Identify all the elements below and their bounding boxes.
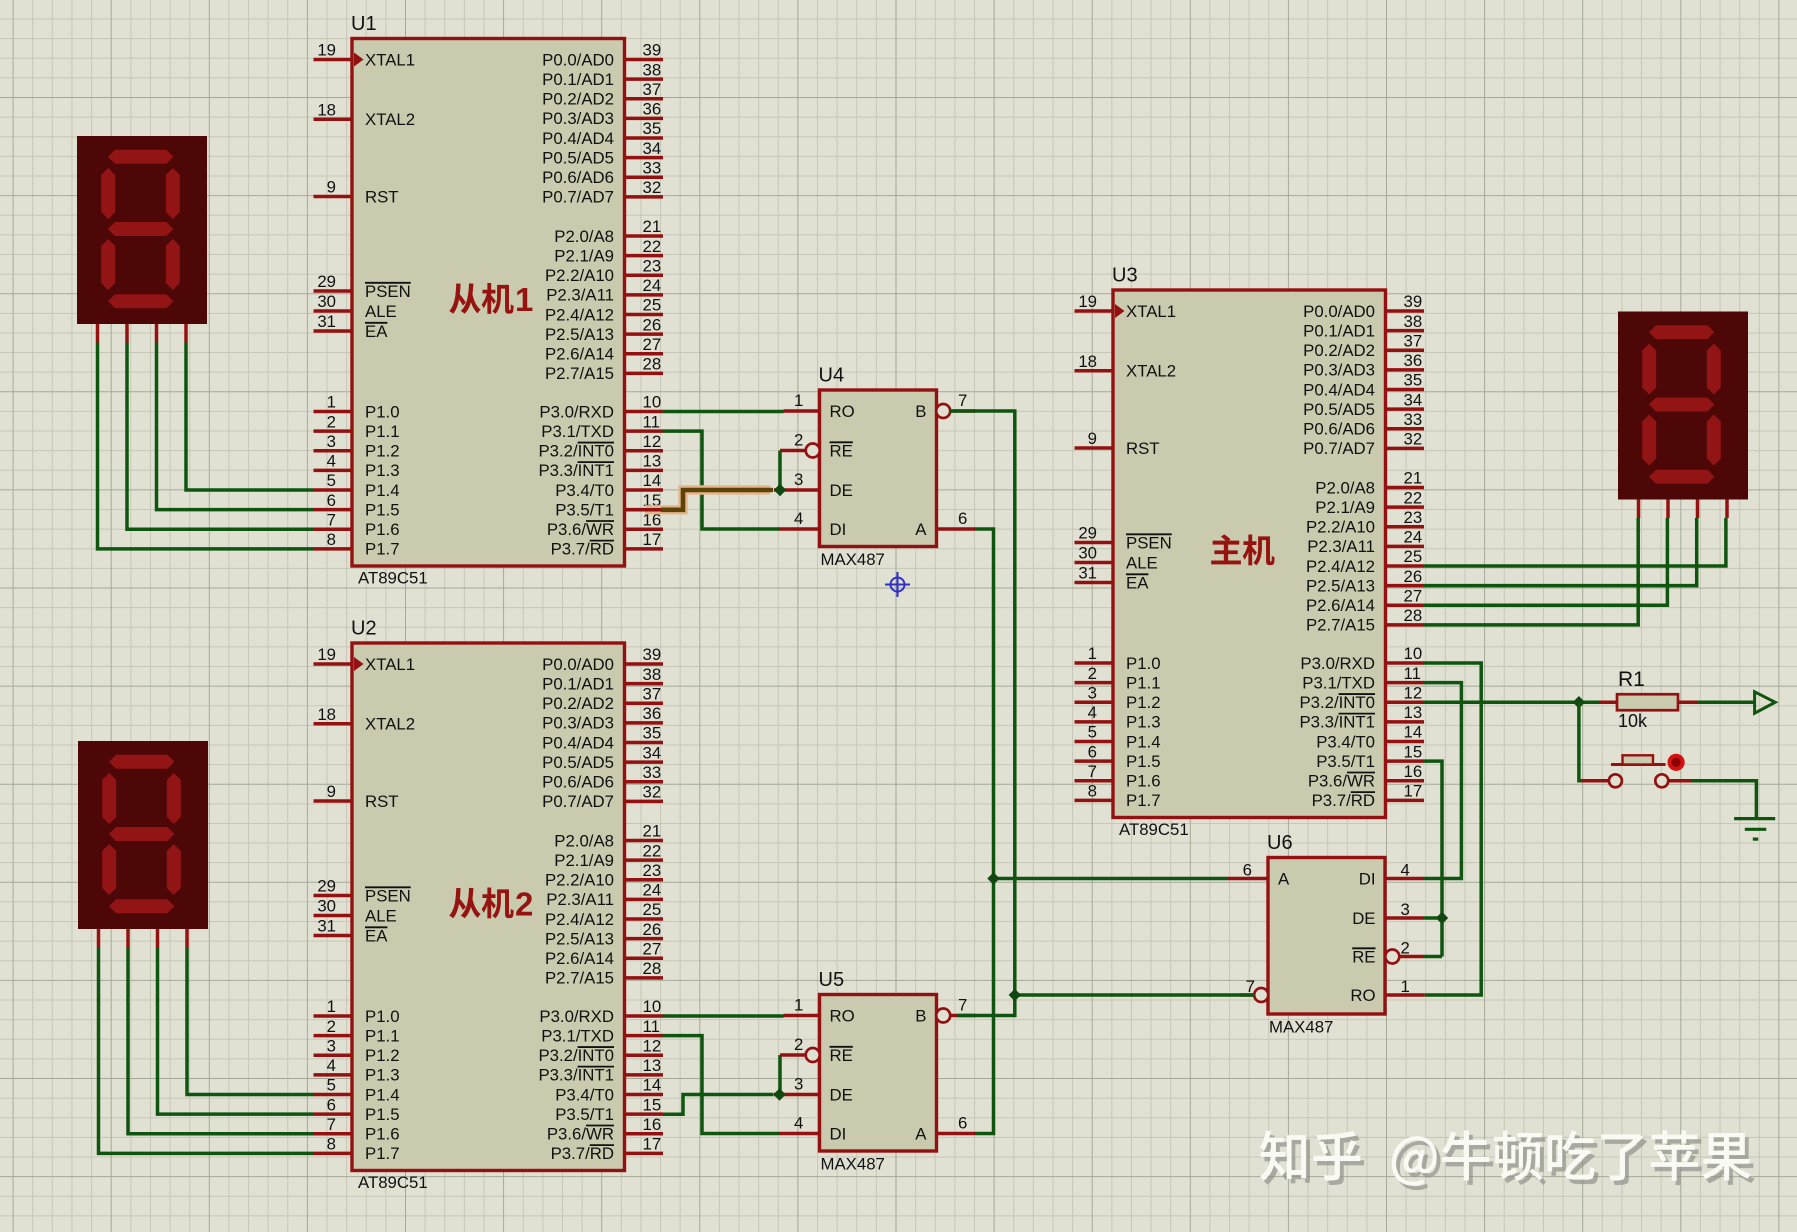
DS3 pin 2 (1666, 500, 1670, 519)
svg-text:13: 13 (643, 452, 662, 471)
svg-text:P0.1/AD1: P0.1/AD1 (542, 70, 614, 89)
svg-text:R1: R1 (1618, 668, 1645, 691)
svg-text:24: 24 (643, 881, 662, 900)
svg-text:P2.5/A13: P2.5/A13 (1306, 576, 1375, 595)
U3 pin 19 XTAL1 (1075, 309, 1114, 313)
svg-text:EA: EA (1126, 573, 1149, 592)
svg-text:17: 17 (643, 530, 662, 549)
svg-text:17: 17 (1404, 782, 1423, 801)
svg-text:16: 16 (643, 1115, 662, 1134)
U3 pin 23 P2.2/A10 (1386, 525, 1425, 529)
svg-text:29: 29 (317, 877, 336, 896)
svg-text:4: 4 (327, 452, 336, 471)
svg-text:27: 27 (1404, 586, 1423, 605)
svg-text:P1.6: P1.6 (365, 520, 400, 539)
svg-text:6: 6 (327, 491, 336, 510)
U2 pin 7 P1.6 (314, 1132, 353, 1136)
7-segment display DS3 (1618, 312, 1748, 500)
svg-text:P2.1/A9: P2.1/A9 (1315, 498, 1375, 517)
svg-text:18: 18 (317, 101, 336, 120)
svg-text:P2.4/A12: P2.4/A12 (545, 910, 614, 929)
U5 pin 6 A (937, 1132, 976, 1136)
U1 pin 32 P0.7/AD7 (625, 195, 664, 199)
wire U2 P3.5/T1 to U5 DE (663, 1095, 774, 1115)
button interactive toggle dot (1668, 754, 1685, 771)
svg-text:10k: 10k (1618, 711, 1648, 731)
svg-text:PSEN: PSEN (1126, 533, 1172, 552)
svg-text:P2.2/A10: P2.2/A10 (545, 266, 614, 285)
svg-text:3: 3 (1401, 900, 1410, 919)
U3 pin 25 P2.4/A12 (1386, 564, 1425, 568)
svg-text:P1.1: P1.1 (1126, 673, 1161, 692)
svg-text:P3.5/T1: P3.5/T1 (555, 500, 614, 519)
U1 pin 3 P1.2 (314, 449, 353, 453)
wire U3 P2.7 to DS3 pin1 (1424, 518, 1639, 625)
U3 pin 17 P3.7/RD (1386, 799, 1425, 803)
svg-text:35: 35 (643, 724, 662, 743)
svg-text:AT89C51: AT89C51 (358, 1173, 428, 1192)
U2 pin 8 P1.7 (314, 1152, 353, 1156)
svg-text:P0.2/AD2: P0.2/AD2 (542, 694, 614, 713)
svg-text:XTAL1: XTAL1 (365, 50, 415, 69)
svg-text:P1.3: P1.3 (365, 1066, 400, 1085)
svg-text:39: 39 (643, 41, 662, 60)
svg-text:P1.7: P1.7 (365, 1144, 400, 1163)
svg-text:P1.5: P1.5 (365, 1105, 400, 1124)
svg-text:13: 13 (643, 1056, 662, 1075)
svg-text:21: 21 (643, 822, 662, 841)
U3 pin 27 P2.6/A14 (1386, 603, 1425, 607)
U2 pin 34 P0.5/AD5 (625, 760, 664, 764)
U1 pin 34 P0.5/AD5 (625, 156, 664, 160)
svg-text:DE: DE (830, 1085, 853, 1104)
U1 pin 33 P0.6/AD6 (625, 175, 664, 179)
svg-text:1: 1 (1088, 644, 1097, 663)
svg-text:30: 30 (317, 292, 336, 311)
svg-text:8: 8 (327, 530, 336, 549)
wire DS2 pin1 to U2 P1.7 (99, 948, 314, 1154)
junction U4 DE node (774, 484, 786, 496)
svg-text:P3.3/INT1: P3.3/INT1 (538, 1066, 614, 1085)
transceiver U6 MAX487 (1267, 832, 1385, 1037)
U3 pin 29 PSEN (1075, 541, 1114, 545)
U5 pin 4 DI (779, 1132, 820, 1136)
U2 pin 21 P2.0/A8 (625, 839, 664, 843)
wire U3 P3.2/INT0 to R1 and button (1424, 700, 1601, 704)
svg-text:P2.4/A12: P2.4/A12 (545, 305, 614, 324)
U2 pin 37 P0.2/AD2 (625, 701, 664, 705)
wire net A branch to U6 A (994, 877, 1228, 881)
U3 pin 5 P1.4 (1075, 740, 1114, 744)
svg-text:P2.5/A13: P2.5/A13 (545, 929, 614, 948)
wire DS1 pin4 to U1 P1.4 (186, 343, 314, 490)
svg-text:35: 35 (1404, 371, 1423, 390)
svg-text:25: 25 (643, 296, 662, 315)
svg-text:14: 14 (643, 1076, 662, 1095)
U3 pin 22 P2.1/A9 (1386, 505, 1425, 509)
svg-text:31: 31 (1078, 564, 1097, 583)
svg-text:DE: DE (1352, 909, 1375, 928)
U3 pin 10 P3.0/RXD (1386, 661, 1425, 665)
svg-text:6: 6 (958, 509, 967, 528)
svg-text:A: A (915, 520, 927, 539)
svg-text:10: 10 (643, 393, 662, 412)
svg-text:MAX487: MAX487 (821, 550, 885, 569)
svg-text:11: 11 (1404, 664, 1421, 683)
svg-text:5: 5 (327, 471, 336, 490)
svg-text:P2.7/A15: P2.7/A15 (1306, 616, 1375, 635)
svg-text:B: B (915, 402, 926, 421)
U6 pin 6 A (1228, 877, 1269, 881)
U2 pin 6 P1.5 (314, 1112, 353, 1116)
svg-text:ALE: ALE (365, 302, 397, 321)
U2 pin 24 P2.3/A11 (625, 898, 664, 902)
svg-text:P1.2: P1.2 (1126, 693, 1161, 712)
svg-text:P2.5/A13: P2.5/A13 (545, 325, 614, 344)
U1 pin 16 P3.6/WR (625, 527, 664, 531)
svg-text:RE: RE (830, 441, 853, 460)
svg-text:36: 36 (643, 704, 662, 723)
svg-text:P0.7/AD7: P0.7/AD7 (1303, 439, 1375, 458)
svg-text:4: 4 (1401, 861, 1410, 880)
U1 pin 6 P1.5 (314, 508, 353, 512)
U3 pin 12 P3.2/INT0 (1386, 700, 1425, 704)
U1 pin 2 P1.1 (314, 429, 353, 433)
U1 pin 11 P3.1/TXD (625, 429, 664, 433)
svg-text:26: 26 (1404, 567, 1423, 586)
U2 pin 11 P3.1/TXD (625, 1034, 664, 1038)
svg-text:P1.1: P1.1 (365, 1026, 400, 1045)
svg-text:38: 38 (1404, 312, 1423, 331)
U1 pin 13 P3.3/INT1 (625, 469, 664, 473)
U2 pin 10 P3.0/RXD (625, 1014, 664, 1018)
svg-text:9: 9 (327, 178, 336, 197)
U1 pin 29 PSEN (314, 289, 353, 293)
svg-text:P3.0/RXD: P3.0/RXD (539, 1007, 614, 1026)
U1 pin 36 P0.3/AD3 (625, 117, 664, 121)
U6 pin 4 DI (1386, 877, 1424, 881)
svg-text:1: 1 (1401, 977, 1410, 996)
transceiver U4 MAX487 (819, 365, 937, 570)
svg-text:15: 15 (643, 1095, 662, 1114)
U3 pin 9 RST (1075, 446, 1114, 450)
svg-text:28: 28 (643, 959, 662, 978)
U3 pin 16 P3.6/WR (1386, 779, 1425, 783)
origin marker (blue crosshair) (885, 572, 910, 597)
svg-text:15: 15 (1404, 742, 1423, 761)
svg-text:37: 37 (643, 684, 662, 703)
svg-text:P2.6/A14: P2.6/A14 (1306, 596, 1375, 615)
U4 pin 1 RO (784, 409, 820, 413)
svg-text:P3.4/T0: P3.4/T0 (555, 481, 614, 500)
svg-text:MAX487: MAX487 (821, 1155, 885, 1174)
wire U4 RE to DE junction (778, 451, 782, 491)
svg-text:P3.6/WR: P3.6/WR (547, 1125, 614, 1144)
svg-text:36: 36 (1404, 351, 1423, 370)
svg-text:P0.3/AD3: P0.3/AD3 (1303, 361, 1375, 380)
svg-text:P3.2/INT0: P3.2/INT0 (538, 1046, 614, 1065)
svg-text:U5: U5 (819, 969, 845, 991)
U2 pin 4 P1.3 (314, 1073, 353, 1077)
wire U1 P3.0/RXD to U4 RO (663, 410, 784, 414)
junction R1/button node (1573, 696, 1585, 708)
U1 pin 25 P2.4/A12 (625, 313, 664, 317)
U3 pin 21 P2.0/A8 (1386, 486, 1425, 490)
U1 pin 17 P3.7/RD (625, 547, 664, 551)
junction net A node (987, 872, 999, 884)
U3 pin 13 P3.3/INT1 (1386, 720, 1425, 724)
svg-text:P1.6: P1.6 (1126, 772, 1161, 791)
U1 pin 22 P2.1/A9 (625, 254, 664, 258)
wire U3 P2.6 to DS3 pin2 (1424, 518, 1668, 605)
U2 pin 27 P2.6/A14 (625, 956, 664, 960)
svg-text:33: 33 (643, 763, 662, 782)
svg-text:13: 13 (1404, 703, 1423, 722)
svg-text:26: 26 (643, 920, 662, 939)
U1 pin 21 P2.0/A8 (625, 234, 664, 238)
svg-text:P0.2/AD2: P0.2/AD2 (1303, 341, 1375, 360)
svg-text:22: 22 (643, 841, 662, 860)
U1 pin 1 P1.0 (314, 410, 353, 414)
U3 pin 18 XTAL2 (1075, 369, 1114, 373)
svg-text:P3.6/WR: P3.6/WR (1308, 772, 1375, 791)
svg-text:29: 29 (317, 272, 336, 291)
svg-text:RO: RO (830, 402, 855, 421)
svg-text:22: 22 (1404, 488, 1423, 507)
svg-text:39: 39 (643, 645, 662, 664)
7-segment display DS2 (78, 741, 208, 929)
svg-text:4: 4 (794, 1114, 803, 1133)
svg-text:P1.7: P1.7 (1126, 791, 1161, 810)
svg-text:XTAL2: XTAL2 (365, 715, 415, 734)
svg-text:P3.4/T0: P3.4/T0 (1316, 732, 1375, 751)
DS1 pin 2 (125, 324, 129, 343)
U6 pin 1 RO (1386, 993, 1425, 997)
svg-text:4: 4 (1088, 703, 1097, 722)
svg-text:34: 34 (643, 743, 662, 762)
U3 pin 4 P1.3 (1075, 720, 1114, 724)
U3 pin 36 P0.3/AD3 (1386, 368, 1425, 372)
svg-text:P0.2/AD2: P0.2/AD2 (542, 90, 614, 109)
U2 pin 9 RST (314, 799, 353, 803)
wire U2 P3.1/TXD to U5 DI (663, 1036, 780, 1134)
svg-text:P2.6/A14: P2.6/A14 (545, 345, 614, 364)
svg-text:P3.1/TXD: P3.1/TXD (541, 1026, 614, 1045)
microcontroller U3 AT89C51 (主机) (1075, 265, 1425, 840)
U1 pin 38 P0.1/AD1 (625, 77, 664, 81)
svg-text:P0.1/AD1: P0.1/AD1 (1303, 321, 1375, 340)
svg-text:P3.7/RD: P3.7/RD (1312, 791, 1375, 810)
U1 pin 8 P1.7 (314, 547, 353, 551)
svg-text:18: 18 (1078, 352, 1097, 371)
U1 pin 39 P0.0/AD0 (625, 58, 664, 62)
U2 pin 18 XTAL2 (314, 722, 353, 726)
U3 pin 31 EA (1075, 581, 1114, 585)
svg-text:RST: RST (365, 187, 399, 206)
U2 pin 5 P1.4 (314, 1093, 353, 1097)
transceiver U5 MAX487 (819, 969, 937, 1174)
U2 pin 22 P2.1/A9 (625, 858, 664, 862)
7-segment display DS1 (77, 136, 207, 324)
svg-text:P0.3/AD3: P0.3/AD3 (542, 714, 614, 733)
svg-text:P1.0: P1.0 (1126, 654, 1161, 673)
U1 pin 10 P3.0/RXD (625, 410, 664, 414)
svg-text:9: 9 (1088, 429, 1097, 448)
svg-text:P2.1/A9: P2.1/A9 (554, 246, 614, 265)
svg-text:2: 2 (1088, 664, 1097, 683)
svg-text:PSEN: PSEN (365, 282, 411, 301)
U1 label 从机1 (449, 283, 480, 313)
U2 pin 12 P3.2/INT0 (625, 1053, 664, 1057)
U4 pin 6 A (937, 527, 976, 531)
svg-text:P3.3/INT1: P3.3/INT1 (1299, 713, 1375, 732)
wire DS1 pin3 to U1 P1.5 (157, 343, 314, 510)
svg-text:P0.4/AD4: P0.4/AD4 (542, 733, 614, 752)
svg-text:XTAL2: XTAL2 (365, 110, 415, 129)
svg-text:32: 32 (643, 178, 662, 197)
U2 pin 32 P0.7/AD7 (625, 800, 664, 804)
svg-text:8: 8 (1088, 782, 1097, 801)
svg-text:19: 19 (317, 41, 336, 60)
wire R1 to arrow terminal (1697, 700, 1755, 704)
U1 pin 23 P2.2/A10 (625, 273, 664, 277)
svg-text:19: 19 (1078, 292, 1097, 311)
svg-text:P3.0/RXD: P3.0/RXD (1300, 654, 1375, 673)
svg-text:P0.4/AD4: P0.4/AD4 (1303, 380, 1375, 399)
svg-text:32: 32 (643, 783, 662, 802)
svg-text:DI: DI (1359, 869, 1376, 888)
svg-text:12: 12 (643, 1036, 662, 1055)
U3 pin 33 P0.6/AD6 (1386, 427, 1425, 431)
U3 pin 24 P2.3/A11 (1386, 545, 1425, 549)
svg-text:P1.3: P1.3 (365, 461, 400, 480)
U3 pin 2 P1.1 (1075, 681, 1114, 685)
U2 pin 26 P2.5/A13 (625, 937, 664, 941)
svg-text:P1.7: P1.7 (365, 540, 400, 559)
svg-text:23: 23 (1404, 508, 1423, 527)
svg-text:PSEN: PSEN (365, 886, 411, 905)
svg-text:18: 18 (317, 705, 336, 724)
svg-text:38: 38 (643, 60, 662, 79)
DS2 pin 1 (97, 929, 101, 948)
U3 pin 30 ALE (1075, 561, 1114, 565)
svg-text:7: 7 (1088, 762, 1097, 781)
svg-text:5: 5 (327, 1076, 336, 1095)
svg-text:P3.1/TXD: P3.1/TXD (1302, 673, 1375, 692)
U2 pin 16 P3.6/WR (625, 1132, 664, 1136)
svg-text:24: 24 (643, 276, 662, 295)
svg-text:P3.2/INT0: P3.2/INT0 (538, 442, 614, 461)
svg-text:P3.5/T1: P3.5/T1 (1316, 752, 1375, 771)
svg-text:RST: RST (365, 792, 399, 811)
DS1 pin 4 (184, 324, 188, 343)
U3 pin 39 P0.0/AD0 (1386, 309, 1425, 313)
svg-text:37: 37 (1404, 331, 1423, 350)
svg-text:11: 11 (643, 1017, 660, 1036)
svg-text:37: 37 (643, 80, 662, 99)
U2 pin 23 P2.2/A10 (625, 878, 664, 882)
U2 pin 15 P3.5/T1 (625, 1112, 664, 1116)
svg-text:P1.4: P1.4 (365, 481, 400, 500)
svg-text:P3.5/T1: P3.5/T1 (555, 1105, 614, 1124)
U4 pin 7 B (936, 404, 950, 418)
svg-text:AT89C51: AT89C51 (358, 569, 428, 588)
svg-text:25: 25 (643, 900, 662, 919)
svg-text:17: 17 (643, 1135, 662, 1154)
DS3 pin 1 (1637, 500, 1641, 519)
svg-text:RO: RO (1350, 986, 1375, 1005)
svg-text:P2.7/A15: P2.7/A15 (545, 364, 614, 383)
svg-text:RST: RST (1126, 439, 1160, 458)
wire net B: U4 B to U5 B / U6 B (950, 411, 1015, 1016)
svg-text:34: 34 (643, 139, 662, 158)
svg-text:P0.5/AD5: P0.5/AD5 (542, 753, 614, 772)
U6 pin 7 B (1254, 988, 1268, 1002)
svg-text:U6: U6 (1267, 832, 1293, 854)
svg-text:34: 34 (1404, 390, 1423, 409)
svg-text:ALE: ALE (1126, 553, 1158, 572)
svg-text:31: 31 (317, 917, 336, 936)
svg-text:14: 14 (643, 471, 662, 490)
svg-text:P0.5/AD5: P0.5/AD5 (542, 148, 614, 167)
svg-text:7: 7 (958, 996, 967, 1015)
svg-text:P0.0/AD0: P0.0/AD0 (542, 655, 614, 674)
svg-text:1: 1 (794, 391, 803, 410)
U3 pin 6 P1.5 (1075, 759, 1114, 763)
wire U3 P2.5 to DS3 pin3 (1424, 518, 1697, 586)
svg-text:30: 30 (317, 897, 336, 916)
svg-text:P0.6/AD6: P0.6/AD6 (1303, 420, 1375, 439)
svg-text:2: 2 (327, 412, 336, 431)
wire U1 P3.5/T1 to U4 DE (highlighted) (645, 490, 770, 510)
svg-text:31: 31 (317, 312, 336, 331)
wire net A: U4 A to U5 A / U6 A (976, 529, 994, 1134)
U1 pin 9 RST (314, 195, 353, 199)
svg-text:P1.3: P1.3 (1126, 713, 1161, 732)
svg-text:39: 39 (1404, 292, 1423, 311)
svg-text:5: 5 (1088, 723, 1097, 742)
svg-text:XTAL1: XTAL1 (1126, 302, 1176, 321)
svg-text:P1.4: P1.4 (365, 1085, 400, 1104)
U2 pin 17 P3.7/RD (625, 1152, 664, 1156)
U2 pin 38 P0.1/AD1 (625, 682, 664, 686)
svg-text:21: 21 (1404, 469, 1423, 488)
U3 pin 38 P0.1/AD1 (1386, 329, 1425, 333)
DS2 pin 2 (126, 929, 130, 948)
svg-text:P1.5: P1.5 (1126, 752, 1161, 771)
U5 pin 2 RE (780, 1053, 806, 1057)
U3 pin 11 P3.1/TXD (1386, 681, 1425, 685)
U6 pin 3 DE (1386, 916, 1424, 920)
U3 pin 14 P3.4/T0 (1386, 740, 1425, 744)
U1 pin 28 P2.7/A15 (625, 372, 664, 376)
svg-text:EA: EA (365, 322, 388, 341)
DS1 pin 3 (155, 324, 159, 343)
svg-text:P3.0/RXD: P3.0/RXD (539, 402, 614, 421)
svg-text:P0.3/AD3: P0.3/AD3 (542, 109, 614, 128)
U3 pin 7 P1.6 (1075, 779, 1114, 783)
svg-text:7: 7 (1246, 977, 1255, 996)
junction net B node (1009, 989, 1021, 1001)
U1 pin 15 P3.5/T1 (625, 508, 664, 512)
svg-text:24: 24 (1404, 528, 1423, 547)
svg-text:DE: DE (830, 481, 853, 500)
svg-text:P3.1/TXD: P3.1/TXD (541, 422, 614, 441)
svg-text:6: 6 (1088, 742, 1097, 761)
arrow terminal (net pointer) (1755, 692, 1776, 713)
U3 pin 15 P3.5/T1 (1386, 759, 1425, 763)
wire DS2 pin2 to U2 P1.6 (128, 948, 314, 1134)
